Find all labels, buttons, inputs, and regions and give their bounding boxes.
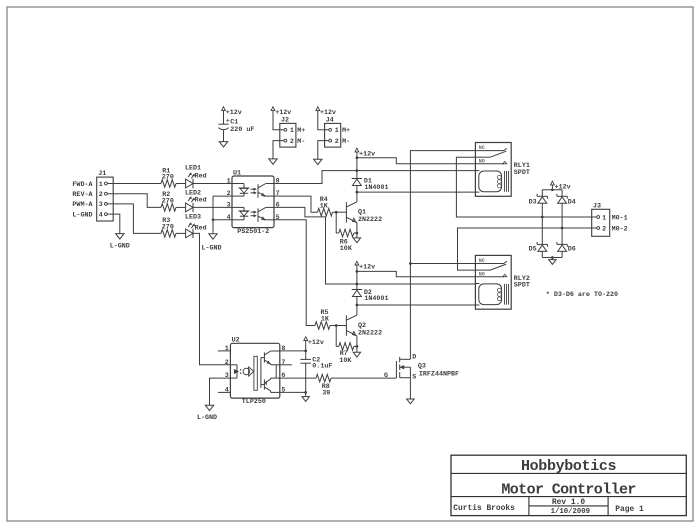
- svg-text:10K: 10K: [339, 357, 352, 365]
- wire D4 anode to M0-2 row: [561, 203, 563, 228]
- svg-text:+12v: +12v: [308, 339, 324, 347]
- svg-text:LED1: LED1: [185, 164, 201, 172]
- svg-text:TLP250: TLP250: [242, 398, 266, 406]
- diode D5: [529, 242, 548, 258]
- svg-text:NO: NO: [479, 271, 485, 277]
- svg-text:Curtis Brooks: Curtis Brooks: [453, 504, 515, 513]
- wire R3 to LED3: [176, 232, 186, 234]
- wire J1 pin2 to R2 (REV-A): [107, 194, 161, 208]
- svg-text:D4: D4: [568, 199, 576, 207]
- svg-text:1N4001: 1N4001: [364, 184, 388, 192]
- wire U1 pin2 to ground: [213, 195, 232, 197]
- transistor Q2 2N2222 NPN: [346, 315, 382, 337]
- svg-text:1K: 1K: [321, 316, 330, 324]
- wire +12v to RLY2 pin3 NO (with step): [357, 271, 476, 276]
- junction RLY2 coil- / Q2 collector: [356, 304, 359, 307]
- optocoupler U1 PS2501-2: [227, 170, 280, 237]
- svg-text:6: 6: [281, 372, 285, 380]
- connector J3 motor output: [592, 203, 610, 237]
- svg-text:Red: Red: [195, 224, 207, 232]
- wire bridge right column M0-2 to D6: [561, 228, 563, 244]
- optocoupler gate driver U2 TLP250: [225, 337, 286, 406]
- junction Q2 emitter / R7: [356, 345, 359, 348]
- +12v symbol lower rail: [356, 265, 358, 268]
- svg-text:2: 2: [99, 191, 103, 199]
- svg-text:Motor Controller: Motor Controller: [501, 481, 635, 498]
- svg-text:3: 3: [225, 372, 229, 380]
- svg-text:2: 2: [602, 225, 606, 233]
- stub U2 pin1: [218, 350, 230, 352]
- svg-text:8: 8: [276, 178, 280, 186]
- wire Q2 emitter down to ground node: [356, 336, 358, 353]
- wire +12v to RLY1 pin3 NO (with step): [357, 158, 476, 164]
- svg-text:Red: Red: [195, 172, 207, 180]
- wire bridge top rail: [551, 188, 553, 190]
- junction U1 pins2-4 ground node: [212, 218, 215, 221]
- junction R4/R6 at Q1 base: [335, 211, 338, 214]
- svg-text:J1: J1: [98, 170, 106, 178]
- +12v symbol at U2: [305, 341, 307, 344]
- svg-text:1N4001: 1N4001: [364, 295, 388, 303]
- wire Q1 collector to coil- node: [356, 192, 358, 202]
- svg-text:Rev 1.0: Rev 1.0: [552, 498, 585, 507]
- junction U2 pin8 supply: [304, 350, 307, 353]
- resistor R2 270: [161, 191, 176, 211]
- svg-text:7: 7: [281, 359, 285, 367]
- resistor R8 39 gate resistor: [316, 374, 331, 397]
- wire bridge bottom to ground: [551, 258, 553, 260]
- ground symbol at Q2 emitter: [353, 352, 360, 357]
- ground symbol at bridge: [549, 260, 556, 265]
- svg-text:M-: M-: [342, 138, 350, 146]
- svg-text:M-: M-: [297, 138, 305, 146]
- wire +12v to U2 pin8: [305, 344, 307, 360]
- svg-text:G: G: [384, 372, 388, 380]
- svg-text:PS2501-2: PS2501-2: [237, 228, 269, 236]
- junction R5/R7 at Q2 base: [335, 324, 338, 327]
- +12v symbol at J2: [272, 111, 274, 114]
- junction M0-2 at bridge right column: [561, 227, 564, 230]
- wire R6 to emitter node: [354, 232, 357, 234]
- wire R1 to LED1: [176, 183, 186, 185]
- svg-text:0.1uF: 0.1uF: [312, 363, 332, 371]
- svg-text:SPDT: SPDT: [514, 169, 530, 177]
- resistor R7 10K: [339, 343, 354, 365]
- svg-text:L-GND: L-GND: [72, 211, 92, 219]
- relay RLY2 SPDT: [475, 255, 529, 309]
- wire U1 pin6 to +12v node (collector feed): [274, 207, 357, 284]
- junction +12v to RLY2 NO contact: [356, 270, 359, 273]
- wire coil- node to RLY1 pin1: [357, 191, 476, 193]
- svg-text:U2: U2: [232, 337, 240, 345]
- transistor Q3 IRFZ44NPBF N-MOSFET: [384, 354, 459, 382]
- wire +12v node to RLY1 pin2 coil+: [357, 170, 476, 172]
- ground symbol at Q1 emitter: [353, 238, 360, 243]
- svg-text:1: 1: [335, 127, 339, 135]
- transistor Q1 2N2222 NPN: [346, 202, 382, 224]
- svg-text:5: 5: [281, 386, 285, 394]
- capacitor C1 220 uF electrolytic: [218, 114, 254, 142]
- ground symbol at J4: [314, 159, 322, 164]
- svg-text:+12v: +12v: [359, 150, 375, 158]
- wire R5 to Q2 base: [330, 325, 346, 327]
- wire R7 to emitter node: [354, 345, 357, 347]
- svg-text:1: 1: [290, 127, 294, 135]
- wire J1 pin3 to R3 (PWM-A): [107, 204, 161, 234]
- relay RLY1 SPDT: [475, 143, 529, 197]
- svg-text:10K: 10K: [340, 245, 353, 253]
- LED3 Red: [185, 213, 207, 238]
- wire +12v rail down to D2/Q2: [356, 268, 358, 289]
- svg-text:7: 7: [276, 190, 280, 198]
- svg-text:D6: D6: [568, 245, 576, 253]
- wire J1 pin4 to ground: [107, 214, 120, 234]
- wire bridge bottom rail: [542, 257, 562, 259]
- svg-text:M+: M+: [297, 127, 305, 135]
- svg-text:* D3-D6 are TO-220: * D3-D6 are TO-220: [546, 291, 618, 299]
- wire D3 anode to M0-1 row: [541, 203, 543, 217]
- diode D4: [557, 190, 576, 207]
- svg-text:D5: D5: [529, 245, 537, 253]
- svg-text:3: 3: [99, 201, 103, 209]
- svg-text:4: 4: [227, 214, 231, 222]
- svg-text:39: 39: [322, 389, 330, 397]
- diode D3: [529, 190, 548, 207]
- junction Q1 emitter / R6: [356, 232, 359, 235]
- svg-text:D: D: [412, 354, 416, 362]
- svg-text:2: 2: [290, 138, 294, 146]
- junction +12v to RLY1 NO contact: [356, 156, 359, 159]
- svg-text:+12v: +12v: [226, 109, 242, 117]
- wire LED3 to U2 pin2 (down the left side): [193, 233, 230, 364]
- wire Q1 emitter down to ground node: [356, 223, 358, 238]
- junction U2 pin5 / C2 ground node: [304, 391, 307, 394]
- svg-text:M0-2: M0-2: [612, 225, 628, 233]
- wire U2 pin5 to ground node: [280, 391, 306, 393]
- svg-text:Q3: Q3: [418, 362, 426, 370]
- wire J2 pin2 to ground: [273, 141, 284, 159]
- svg-text:Red: Red: [195, 196, 207, 204]
- svg-text:J3: J3: [593, 203, 601, 211]
- wire +12v to J2 pin1: [273, 114, 284, 130]
- svg-text:J2: J2: [281, 117, 289, 125]
- svg-text:1: 1: [227, 178, 231, 186]
- wire LED2 to U1 pin3: [193, 206, 232, 208]
- wire +12v rail down to D1/Q1: [356, 155, 358, 178]
- wire D2 anode to coil- node: [356, 296, 358, 305]
- diode D1 1N4001 flyback: [352, 178, 389, 192]
- +12v symbol at diode bridge: [551, 185, 553, 188]
- svg-text:FWD-A: FWD-A: [72, 181, 93, 189]
- svg-text:4: 4: [225, 386, 229, 394]
- svg-text:3: 3: [227, 201, 231, 209]
- J1 signal name labels FWD-A REV-A PWM-A L-GND: [72, 181, 93, 220]
- wire D1 anode to coil- node: [356, 185, 358, 192]
- LED1 Red: [185, 164, 207, 188]
- resistor R6 10K: [339, 229, 354, 253]
- svg-text:NC: NC: [479, 258, 485, 264]
- wire R8 to Q3 gate: [331, 377, 396, 379]
- svg-text:5: 5: [276, 214, 280, 222]
- wire R7 base-side vertical: [335, 326, 337, 347]
- svg-text:1/10/2009: 1/10/2009: [551, 508, 590, 516]
- svg-text:1: 1: [99, 181, 103, 189]
- diode D2 1N4001 flyback: [352, 289, 389, 303]
- wire RLY2 pin5 NC to Q3 drain column: [410, 263, 475, 265]
- wire RLY1 pin4 common to J3 pin1 M0-1: [456, 157, 596, 217]
- ground symbol at J2: [269, 159, 277, 164]
- resistor R5 1K: [315, 309, 330, 329]
- svg-text:D3: D3: [529, 199, 537, 207]
- svg-text:6: 6: [276, 201, 280, 209]
- junction U1 pin6 / RLY2 coil+ node: [356, 283, 359, 286]
- diode D6: [557, 242, 576, 258]
- svg-text:IRFZ44NPBF: IRFZ44NPBF: [419, 371, 459, 379]
- ground symbol L-GND at U2: [205, 405, 213, 410]
- ground symbol L-GND at J1: [116, 234, 124, 239]
- ground symbol at U2 pin5 / C2: [302, 397, 309, 402]
- ground symbol L-GND at U1: [209, 234, 217, 239]
- junction drain column at RLY2 NC: [409, 262, 412, 265]
- svg-text:Page 1: Page 1: [615, 505, 644, 514]
- wire U2 pin8 to supply node: [280, 350, 306, 352]
- svg-text:NC: NC: [479, 145, 485, 151]
- svg-text:M0-1: M0-1: [612, 214, 628, 222]
- svg-text:J4: J4: [326, 117, 334, 125]
- junction bridge bottom: [551, 256, 554, 259]
- wire Q2 collector to coil- node: [356, 305, 358, 315]
- svg-text:2: 2: [335, 138, 339, 146]
- svg-text:PWM-A: PWM-A: [72, 201, 93, 209]
- wire U1 pin8 to +12v node: [274, 171, 357, 184]
- wire U1 pin5 to R5: [274, 220, 315, 326]
- connector J2 motor A: [280, 117, 306, 148]
- wire LED1 to U1 pin1: [193, 183, 232, 185]
- wire J1 pin1 to R1 (FWD-A): [107, 183, 161, 185]
- connector J1: [97, 170, 114, 221]
- svg-text:SPDT: SPDT: [514, 282, 530, 290]
- svg-text:U1: U1: [233, 170, 241, 178]
- wire RLY2 pin4 common to J3 pin2 M0-2: [458, 228, 597, 270]
- svg-text:270: 270: [162, 223, 174, 231]
- wire U2 pin3 to ground: [210, 378, 231, 405]
- wire U2 pin6 output to R8: [280, 377, 316, 379]
- wire C2 bottom to ground node: [305, 363, 307, 396]
- junction U1 pin8 / RLY1 coil+ node: [356, 169, 359, 172]
- wire +12v to J4 pin1: [318, 114, 329, 130]
- wire R2 to LED2: [176, 206, 186, 208]
- svg-text:1: 1: [602, 214, 606, 222]
- +12v symbol at J4: [317, 111, 319, 114]
- junction bridge top: [551, 188, 554, 191]
- wire Q3 source to ground: [409, 378, 411, 399]
- svg-text:2N2222: 2N2222: [358, 216, 382, 224]
- svg-text:1: 1: [225, 345, 229, 353]
- junction RLY1 coil- / Q1 collector: [356, 191, 359, 194]
- svg-text:2: 2: [225, 359, 229, 367]
- resistor R1 270: [161, 167, 176, 187]
- wire R6 base-side vertical: [335, 212, 337, 233]
- junction M0-1 at bridge left column: [541, 216, 544, 219]
- svg-text:2N2222: 2N2222: [358, 329, 382, 337]
- wire J4 pin2 to ground: [318, 141, 329, 160]
- wire +12v node to RLY2 pin2 coil+: [357, 283, 476, 285]
- svg-text:Hobbybotics: Hobbybotics: [521, 458, 617, 475]
- svg-text:L-GND: L-GND: [110, 242, 130, 250]
- ground symbol at C1: [219, 142, 227, 147]
- svg-text:4: 4: [99, 211, 103, 219]
- svg-text:L-GND: L-GND: [197, 414, 217, 422]
- stub U2 pin4: [218, 391, 230, 393]
- LED2 Red: [185, 190, 207, 213]
- svg-text:270: 270: [162, 174, 174, 182]
- capacitor C2 0.1uF bypass: [300, 356, 332, 370]
- svg-text:M+: M+: [342, 127, 350, 135]
- wire R4 to Q1 base: [333, 211, 347, 213]
- ground symbol at Q3 source: [407, 399, 414, 404]
- wire U1 pin4 to ground: [213, 219, 232, 221]
- resistor R3 270: [161, 217, 176, 237]
- wire U1 pin7 to R4: [274, 196, 318, 212]
- wire RLY1 pin5 NC to Q3 drain column: [410, 151, 475, 360]
- +12v symbol upper rail: [356, 152, 358, 155]
- +12v symbol at C1: [223, 111, 225, 114]
- svg-text:2: 2: [227, 190, 231, 198]
- svg-text:+12v: +12v: [359, 263, 375, 271]
- title block: [451, 455, 686, 515]
- connector J4 motor B: [325, 117, 351, 148]
- wire bridge left column M0-1 to D5: [541, 217, 543, 244]
- resistor R4 1K: [318, 196, 333, 216]
- wire coil- node to RLY2 pin1: [357, 304, 476, 306]
- svg-text:REV-A: REV-A: [72, 191, 93, 199]
- svg-text:1K: 1K: [320, 202, 329, 210]
- svg-text:L-GND: L-GND: [201, 245, 221, 253]
- svg-text:S: S: [412, 374, 416, 382]
- svg-text:8: 8: [281, 345, 285, 353]
- svg-text:270: 270: [162, 197, 174, 205]
- svg-text:220 uF: 220 uF: [230, 126, 254, 134]
- svg-text:LED3: LED3: [185, 213, 201, 221]
- svg-text:NO: NO: [479, 158, 485, 164]
- stub U2 pin7: [280, 364, 292, 366]
